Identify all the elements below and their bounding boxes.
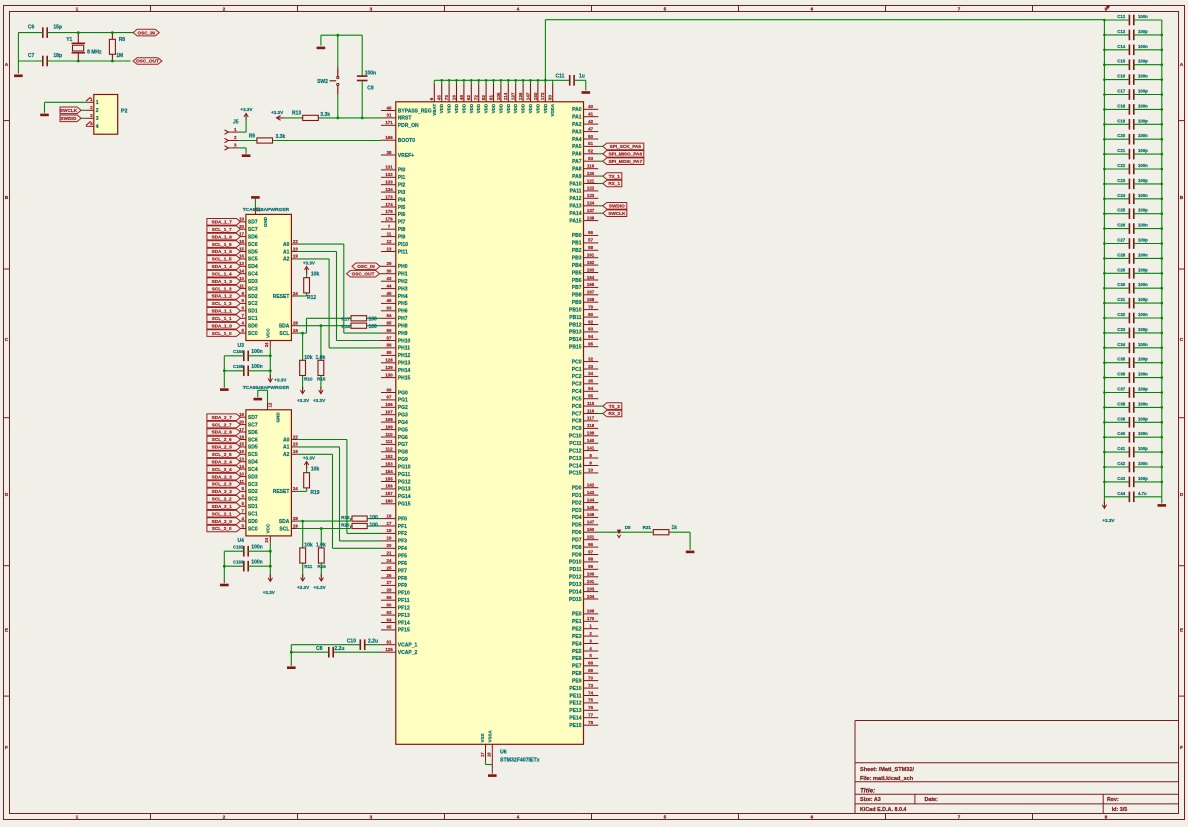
svg-text:PF14: PF14 <box>398 620 410 626</box>
svg-text:PH10: PH10 <box>398 338 411 344</box>
svg-text:C23: C23 <box>1117 178 1125 183</box>
svg-text:16: 16 <box>387 513 392 518</box>
svg-text:PE0: PE0 <box>572 612 582 618</box>
svg-text:17: 17 <box>387 521 392 526</box>
svg-text:C21: C21 <box>1117 148 1125 153</box>
svg-text:58: 58 <box>588 245 593 250</box>
svg-text:PG12: PG12 <box>398 479 411 485</box>
svg-text:PE10: PE10 <box>569 686 581 692</box>
svg-text:PC1: PC1 <box>572 367 582 373</box>
svg-text:100p: 100p <box>1138 297 1148 302</box>
svg-text:81: 81 <box>387 640 392 645</box>
svg-text:100: 100 <box>369 324 378 330</box>
svg-text:100p: 100p <box>1138 89 1148 94</box>
svg-text:PA3: PA3 <box>572 129 582 135</box>
svg-text:35: 35 <box>588 379 593 384</box>
svg-text:PE1: PE1 <box>572 619 582 625</box>
svg-text:22: 22 <box>293 239 298 244</box>
svg-text:C32: C32 <box>1117 312 1125 317</box>
svg-text:PH2: PH2 <box>398 279 408 285</box>
svg-text:45: 45 <box>387 291 392 296</box>
svg-text:31: 31 <box>387 113 392 118</box>
svg-text:PB9: PB9 <box>572 300 582 306</box>
svg-text:PE2: PE2 <box>572 627 582 633</box>
svg-text:PC13: PC13 <box>569 456 582 462</box>
svg-text:SD4: SD4 <box>248 460 258 466</box>
svg-text:100n: 100n <box>1138 163 1148 168</box>
svg-text:PC2: PC2 <box>572 374 582 380</box>
svg-text:30: 30 <box>387 269 392 274</box>
svg-text:+3.3V: +3.3V <box>303 260 316 265</box>
svg-text:VDD: VDD <box>461 103 466 113</box>
svg-text:C31: C31 <box>1117 297 1125 302</box>
svg-text:PH14: PH14 <box>398 368 411 374</box>
svg-text:101: 101 <box>587 579 595 584</box>
svg-text:SDA_2_3: SDA_2_3 <box>212 474 233 479</box>
svg-text:SC7: SC7 <box>248 422 258 428</box>
svg-text:RX_1: RX_1 <box>608 181 620 186</box>
svg-text:PD14: PD14 <box>569 589 582 595</box>
svg-text:KiCad E.D.A. 8.0.4: KiCad E.D.A. 8.0.4 <box>860 807 906 813</box>
svg-text:100n: 100n <box>251 364 262 370</box>
svg-text:R16: R16 <box>317 564 326 569</box>
svg-text:10k: 10k <box>311 272 320 278</box>
svg-text:VDD: VDD <box>469 103 474 113</box>
svg-text:R14: R14 <box>341 324 350 329</box>
svg-text:118: 118 <box>587 423 595 428</box>
svg-text:100p: 100p <box>1138 327 1148 332</box>
svg-text:6: 6 <box>429 97 434 100</box>
svg-text:C15: C15 <box>1117 59 1125 64</box>
svg-text:SCL_2_6: SCL_2_6 <box>212 437 232 442</box>
svg-text:157: 157 <box>385 491 393 496</box>
svg-text:VDD: VDD <box>484 103 489 113</box>
svg-text:PB11: PB11 <box>569 315 581 321</box>
svg-text:VCC: VCC <box>266 328 271 338</box>
svg-text:SCL_2_1: SCL_2_1 <box>212 511 232 516</box>
svg-text:SCL_2_5: SCL_2_5 <box>212 452 232 457</box>
svg-text:PA0: PA0 <box>572 107 582 113</box>
svg-text:33: 33 <box>588 364 593 369</box>
svg-text:138: 138 <box>587 215 595 220</box>
svg-text:SD7: SD7 <box>248 220 258 226</box>
svg-text:SCL: SCL <box>279 526 289 532</box>
svg-text:+3.3V: +3.3V <box>297 398 310 403</box>
svg-text:100n: 100n <box>1138 252 1148 257</box>
svg-text:Date:: Date: <box>925 797 939 803</box>
svg-text:99: 99 <box>588 564 593 569</box>
svg-text:+3.3V: +3.3V <box>297 585 310 590</box>
svg-text:66: 66 <box>387 387 392 392</box>
svg-text:146: 146 <box>587 512 595 517</box>
svg-text:32: 32 <box>588 356 593 361</box>
svg-text:4: 4 <box>517 7 520 13</box>
svg-text:C29: C29 <box>1117 267 1125 272</box>
svg-text:PH8: PH8 <box>398 324 408 330</box>
svg-text:SCL_1_7: SCL_1_7 <box>212 227 232 232</box>
svg-text:PB2: PB2 <box>572 248 582 254</box>
svg-text:150: 150 <box>533 92 538 100</box>
svg-text:+3.3V: +3.3V <box>313 398 326 403</box>
svg-text:161: 161 <box>587 253 595 258</box>
svg-text:147: 147 <box>525 92 530 100</box>
svg-text:131: 131 <box>385 165 393 170</box>
svg-text:100p: 100p <box>1138 357 1148 362</box>
svg-text:C28: C28 <box>1117 252 1125 257</box>
svg-text:104: 104 <box>587 594 595 599</box>
svg-text:VDD: VDD <box>513 103 518 113</box>
svg-text:94: 94 <box>588 334 593 339</box>
svg-text:SD5: SD5 <box>248 249 258 255</box>
svg-text:86: 86 <box>387 328 392 333</box>
svg-text:+3.3V: +3.3V <box>240 107 253 112</box>
svg-text:PI3: PI3 <box>398 190 406 196</box>
svg-text:PI7: PI7 <box>398 220 406 226</box>
svg-text:SCL_2_4: SCL_2_4 <box>212 467 232 472</box>
svg-text:U3: U3 <box>238 343 245 349</box>
svg-text:SCL_1_5: SCL_1_5 <box>212 257 232 262</box>
svg-text:PF10: PF10 <box>398 591 410 597</box>
svg-text:18p: 18p <box>53 53 62 59</box>
svg-text:C20: C20 <box>1117 133 1125 138</box>
svg-text:PC10: PC10 <box>569 434 582 440</box>
svg-text:SPI_SCK_PA5: SPI_SCK_PA5 <box>610 144 642 149</box>
svg-text:166: 166 <box>385 135 393 140</box>
svg-text:C13: C13 <box>1117 29 1125 34</box>
svg-text:24: 24 <box>264 342 269 347</box>
svg-text:103: 103 <box>587 586 595 591</box>
svg-text:C184: C184 <box>233 349 244 354</box>
svg-text:1: 1 <box>96 100 99 106</box>
svg-text:SC4: SC4 <box>248 467 258 473</box>
svg-text:53: 53 <box>588 156 593 161</box>
svg-text:PG13: PG13 <box>398 487 411 493</box>
svg-text:PC4: PC4 <box>572 389 582 395</box>
svg-text:79: 79 <box>588 304 593 309</box>
svg-text:171: 171 <box>385 120 393 125</box>
svg-text:3: 3 <box>96 116 99 122</box>
svg-text:111: 111 <box>386 439 393 444</box>
svg-text:D5: D5 <box>625 525 631 530</box>
svg-text:10: 10 <box>588 468 593 473</box>
svg-text:73: 73 <box>588 683 593 688</box>
svg-text:PH13: PH13 <box>398 361 411 367</box>
svg-text:PE4: PE4 <box>572 641 582 647</box>
svg-text:GND: GND <box>263 216 268 227</box>
svg-text:+3.3V: +3.3V <box>303 455 316 460</box>
svg-text:170: 170 <box>587 616 595 621</box>
svg-text:A2: A2 <box>283 257 290 263</box>
svg-text:C27: C27 <box>1117 238 1125 243</box>
svg-text:C10: C10 <box>347 639 356 645</box>
svg-text:SWCLK: SWCLK <box>608 211 626 216</box>
svg-text:R11: R11 <box>304 564 313 569</box>
svg-text:U4: U4 <box>238 538 245 544</box>
svg-text:PB3: PB3 <box>572 256 582 262</box>
svg-text:+3.3V: +3.3V <box>263 590 276 595</box>
svg-text:PD0: PD0 <box>572 486 582 492</box>
svg-text:163: 163 <box>587 267 595 272</box>
svg-text:100p: 100p <box>1138 267 1148 272</box>
svg-text:C8: C8 <box>316 646 323 652</box>
svg-text:127: 127 <box>511 92 516 100</box>
svg-text:PD7: PD7 <box>572 538 582 544</box>
svg-text:PD3: PD3 <box>572 508 582 514</box>
svg-text:PDR_ON: PDR_ON <box>398 123 419 129</box>
svg-text:SDA_2_7: SDA_2_7 <box>212 415 233 420</box>
svg-text:SD1: SD1 <box>248 504 258 510</box>
svg-text:PB12: PB12 <box>569 322 582 328</box>
svg-text:38: 38 <box>387 150 392 155</box>
svg-text:PG5: PG5 <box>398 427 408 433</box>
svg-text:R13: R13 <box>292 111 301 117</box>
svg-text:30: 30 <box>548 95 553 101</box>
svg-text:24: 24 <box>293 486 298 491</box>
svg-text:PD8: PD8 <box>572 545 582 551</box>
svg-text:PG9: PG9 <box>398 457 408 463</box>
svg-text:SDA_1_3: SDA_1_3 <box>212 279 233 284</box>
svg-text:SD2: SD2 <box>248 294 258 300</box>
svg-text:PE8: PE8 <box>572 671 582 677</box>
svg-text:100p: 100p <box>1138 387 1148 392</box>
svg-text:PI10: PI10 <box>398 242 409 248</box>
svg-text:SDA: SDA <box>279 324 290 330</box>
svg-text:A1: A1 <box>283 249 290 255</box>
svg-text:PE5: PE5 <box>572 649 582 655</box>
svg-text:C22: C22 <box>1117 163 1125 168</box>
svg-text:F: F <box>1180 745 1183 751</box>
svg-text:1.0k: 1.0k <box>316 542 326 548</box>
svg-text:Size: A3: Size: A3 <box>860 797 881 803</box>
svg-text:SCL_1_4: SCL_1_4 <box>212 271 232 276</box>
svg-text:55: 55 <box>588 394 593 399</box>
svg-text:105: 105 <box>496 92 501 100</box>
svg-text:PA12: PA12 <box>569 196 581 202</box>
svg-text:28: 28 <box>293 321 298 326</box>
svg-text:120: 120 <box>587 171 595 176</box>
svg-text:145: 145 <box>587 505 595 510</box>
svg-text:76: 76 <box>588 705 593 710</box>
svg-text:+3.3V: +3.3V <box>271 110 284 115</box>
svg-text:2.2u: 2.2u <box>334 646 344 652</box>
svg-text:OSC_IN: OSC_IN <box>357 264 375 269</box>
svg-text:18: 18 <box>387 528 392 533</box>
svg-text:1M: 1M <box>116 53 123 59</box>
svg-text:PB14: PB14 <box>569 337 582 343</box>
svg-text:C185: C185 <box>233 364 244 369</box>
svg-text:SDA_2_1: SDA_2_1 <box>212 504 233 509</box>
svg-text:142: 142 <box>587 483 595 488</box>
svg-text:112: 112 <box>385 447 393 452</box>
svg-text:PB6: PB6 <box>572 278 582 284</box>
svg-text:PF7: PF7 <box>398 568 407 574</box>
svg-text:8: 8 <box>1105 815 1108 821</box>
svg-text:PE6: PE6 <box>572 656 582 662</box>
svg-text:VDDA: VDDA <box>550 103 555 117</box>
svg-text:SC2: SC2 <box>248 301 258 307</box>
svg-text:PA4: PA4 <box>572 137 582 143</box>
svg-text:PG3: PG3 <box>398 413 408 419</box>
svg-text:150: 150 <box>587 527 595 532</box>
svg-text:RESET: RESET <box>273 489 290 495</box>
svg-text:80: 80 <box>588 312 593 317</box>
svg-text:SDA_2_2: SDA_2_2 <box>212 489 233 494</box>
svg-text:SCL_2_3: SCL_2_3 <box>212 482 232 487</box>
svg-text:C183: C183 <box>233 560 244 565</box>
svg-text:PG2: PG2 <box>398 405 408 411</box>
svg-text:A: A <box>1180 62 1184 68</box>
svg-text:VDD: VDD <box>439 103 444 113</box>
svg-text:PG15: PG15 <box>398 502 411 508</box>
svg-text:SD7: SD7 <box>248 415 258 421</box>
svg-text:27: 27 <box>387 580 392 585</box>
svg-text:C26: C26 <box>1117 223 1125 228</box>
svg-text:82: 82 <box>481 95 486 101</box>
svg-text:PB5: PB5 <box>572 270 582 276</box>
svg-text:B: B <box>5 195 9 201</box>
svg-text:SDA_2_6: SDA_2_6 <box>212 430 233 435</box>
svg-text:PB8: PB8 <box>572 293 582 299</box>
svg-text:100: 100 <box>587 572 595 577</box>
svg-text:C30: C30 <box>1117 282 1125 287</box>
svg-text:VREF+: VREF+ <box>398 153 414 159</box>
svg-text:PC5: PC5 <box>572 397 582 403</box>
svg-text:SW2: SW2 <box>317 79 328 85</box>
svg-text:23: 23 <box>293 246 298 251</box>
svg-text:PF15: PF15 <box>398 628 410 634</box>
svg-text:SPI_MOSI_PA7: SPI_MOSI_PA7 <box>609 159 643 164</box>
svg-text:PI1: PI1 <box>398 175 406 181</box>
svg-text:BYPASS_REG: BYPASS_REG <box>398 108 432 114</box>
svg-text:C16: C16 <box>1117 74 1125 79</box>
svg-text:PF8: PF8 <box>398 576 407 582</box>
svg-text:PC6: PC6 <box>572 404 582 410</box>
svg-text:PG1: PG1 <box>398 398 408 404</box>
svg-text:VSS: VSS <box>480 733 485 742</box>
svg-text:R31: R31 <box>643 525 652 530</box>
svg-text:VDD: VDD <box>535 103 540 113</box>
svg-text:173: 173 <box>385 194 393 199</box>
svg-text:SCL_2_0: SCL_2_0 <box>212 526 232 531</box>
svg-text:114: 114 <box>503 92 508 100</box>
svg-text:R12: R12 <box>307 295 316 301</box>
svg-text:VDD: VDD <box>476 103 481 113</box>
svg-text:169: 169 <box>587 609 595 614</box>
svg-text:A2: A2 <box>283 452 290 458</box>
svg-text:56: 56 <box>588 230 593 235</box>
svg-text:78: 78 <box>588 720 593 725</box>
svg-text:45: 45 <box>437 95 442 101</box>
svg-text:SWCLK: SWCLK <box>60 108 78 113</box>
svg-text:23: 23 <box>293 442 298 447</box>
svg-text:100p: 100p <box>1138 29 1148 34</box>
svg-text:65: 65 <box>387 625 392 630</box>
svg-text:62: 62 <box>466 95 471 101</box>
svg-text:123: 123 <box>587 193 595 198</box>
svg-text:18: 18 <box>487 752 492 757</box>
svg-text:C: C <box>1180 337 1184 343</box>
svg-text:TCA9548APWRGER: TCA9548APWRGER <box>243 207 290 213</box>
svg-text:152: 152 <box>385 454 393 459</box>
svg-text:SDA_1_0: SDA_1_0 <box>212 323 233 328</box>
svg-text:133: 133 <box>385 180 393 185</box>
svg-text:Title:: Title: <box>860 787 875 794</box>
svg-text:100: 100 <box>369 316 378 322</box>
svg-text:C33: C33 <box>1117 327 1125 332</box>
svg-text:73: 73 <box>444 95 449 101</box>
svg-text:139: 139 <box>587 431 595 436</box>
svg-text:PE12: PE12 <box>569 701 581 707</box>
svg-text:SD0: SD0 <box>248 519 258 525</box>
svg-text:12: 12 <box>268 402 273 407</box>
svg-text:100n: 100n <box>251 349 262 355</box>
svg-text:100p: 100p <box>1138 238 1148 243</box>
svg-text:C9: C9 <box>367 85 374 91</box>
svg-text:PH12: PH12 <box>398 353 411 359</box>
svg-text:100n: 100n <box>1138 133 1148 138</box>
svg-text:29: 29 <box>387 261 392 266</box>
svg-text:C24: C24 <box>1117 193 1125 198</box>
svg-text:153: 153 <box>385 462 393 467</box>
svg-text:SDA_1_4: SDA_1_4 <box>212 264 233 269</box>
svg-text:TX_2: TX_2 <box>609 404 621 409</box>
svg-text:C25: C25 <box>1117 208 1125 213</box>
svg-text:PG14: PG14 <box>398 494 411 500</box>
svg-text:100n: 100n <box>1138 401 1148 406</box>
svg-text:OSC_IN: OSC_IN <box>137 30 155 35</box>
svg-text:19: 19 <box>293 254 298 259</box>
svg-text:168: 168 <box>587 297 595 302</box>
svg-text:Y1: Y1 <box>66 37 72 43</box>
svg-text:F: F <box>5 745 8 751</box>
svg-text:RX_2: RX_2 <box>608 411 620 416</box>
svg-text:10k: 10k <box>304 542 313 548</box>
svg-text:2: 2 <box>223 815 226 821</box>
svg-text:22: 22 <box>293 434 298 439</box>
svg-text:PI6: PI6 <box>398 212 406 218</box>
svg-text:83: 83 <box>387 306 392 311</box>
svg-text:D: D <box>5 492 9 498</box>
svg-text:19: 19 <box>387 536 392 541</box>
svg-text:PG6: PG6 <box>398 435 408 441</box>
svg-text:C40: C40 <box>1117 431 1125 436</box>
svg-text:13: 13 <box>387 246 392 251</box>
svg-text:SDA_2_5: SDA_2_5 <box>212 445 233 450</box>
svg-text:100p: 100p <box>1138 208 1148 213</box>
svg-text:File: mati.kicad_sch: File: mati.kicad_sch <box>860 776 914 782</box>
svg-text:11: 11 <box>239 479 244 484</box>
svg-text:54: 54 <box>588 386 593 391</box>
svg-text:PI2: PI2 <box>398 183 406 189</box>
svg-text:100n: 100n <box>1138 282 1148 287</box>
svg-text:PB4: PB4 <box>572 263 582 269</box>
svg-text:24: 24 <box>293 291 298 296</box>
svg-text:16: 16 <box>451 95 456 101</box>
svg-text:PF12: PF12 <box>398 605 410 611</box>
svg-text:107: 107 <box>385 410 393 415</box>
svg-text:SC6: SC6 <box>248 242 258 248</box>
svg-text:D: D <box>1180 492 1184 498</box>
svg-text:124: 124 <box>587 201 595 206</box>
svg-text:SCL: SCL <box>279 331 289 337</box>
svg-text:74: 74 <box>588 690 593 695</box>
svg-text:147: 147 <box>587 520 595 525</box>
svg-text:SD1: SD1 <box>248 309 258 315</box>
svg-text:SD0: SD0 <box>248 324 258 330</box>
svg-text:PF6: PF6 <box>398 561 407 567</box>
svg-text:PB0: PB0 <box>572 233 582 239</box>
svg-text:100n: 100n <box>1138 44 1148 49</box>
